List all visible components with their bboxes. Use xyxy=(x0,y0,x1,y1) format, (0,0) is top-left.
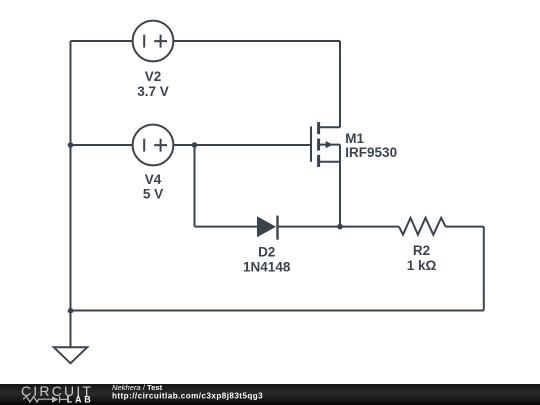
node junction dot diode row at M1 source xyxy=(337,224,343,230)
svg-text:3.7 V: 3.7 V xyxy=(137,84,169,99)
ground xyxy=(54,347,87,363)
wire top rail right of V2 xyxy=(173,40,340,42)
wire diode row left of D2 xyxy=(195,226,258,228)
node junction dot left rail gate row xyxy=(68,142,74,148)
wire top rail left of V2 xyxy=(71,40,133,42)
wire left rail xyxy=(70,41,72,347)
svg-text:1N4148: 1N4148 xyxy=(243,260,291,275)
voltage source V4 xyxy=(133,125,174,166)
svg-text:IRF9530: IRF9530 xyxy=(345,145,397,160)
wire M1 source drop to diode row xyxy=(339,145,341,227)
wire right vertical xyxy=(483,227,485,311)
svg-text:M1: M1 xyxy=(345,131,364,146)
wire bottom rail xyxy=(71,310,484,312)
voltage source V2 xyxy=(133,21,174,62)
resistor R2 xyxy=(399,218,446,235)
svg-text:V2: V2 xyxy=(145,69,162,84)
node junction dot left rail bottom xyxy=(68,308,74,314)
svg-text:LAB: LAB xyxy=(67,395,94,405)
wire gate row left of V4 xyxy=(71,144,133,146)
wire M1 drain drop from top rail xyxy=(339,41,341,127)
wire gate row right of V4 to M1 gate xyxy=(173,144,310,146)
svg-text:V4: V4 xyxy=(145,172,162,187)
node A junction dot (gate row) xyxy=(192,142,198,148)
svg-text:1 kΩ: 1 kΩ xyxy=(407,258,437,273)
transistor M1 (PMOS) xyxy=(311,122,340,167)
wire diode row D2 to R2 xyxy=(278,226,399,228)
svg-text:R2: R2 xyxy=(413,243,430,258)
wire drop from node A to diode row xyxy=(194,145,196,227)
svg-text:http://circuitlab.com/c3xp8j83: http://circuitlab.com/c3xp8j83t5qg3 xyxy=(112,392,263,401)
svg-text:5 V: 5 V xyxy=(143,187,163,202)
wire R2 to right corner xyxy=(446,226,484,228)
CircuitLab logo mini schematic xyxy=(23,396,67,402)
diode D2 xyxy=(257,216,278,240)
svg-text:D2: D2 xyxy=(258,245,275,260)
